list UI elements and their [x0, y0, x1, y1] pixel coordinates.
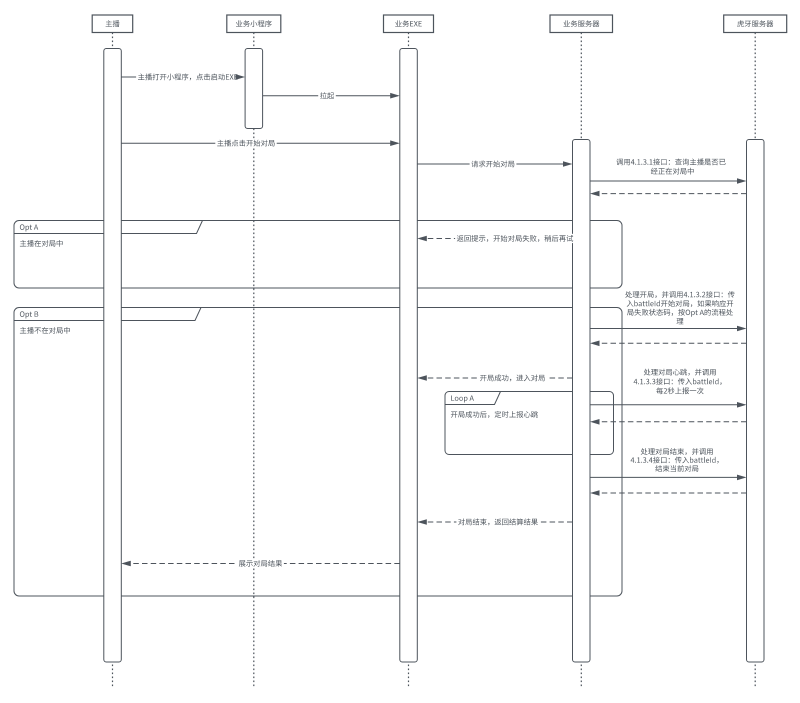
participant header 虎牙服务器 — [724, 15, 787, 33]
activation bar 虎牙服务器 — [747, 140, 765, 663]
fragment Opt A label — [20, 224, 38, 231]
message: 展示对局结果 — [123, 563, 400, 565]
fragment Loop A label — [451, 396, 474, 403]
participant header 业务服务器 — [550, 15, 613, 33]
fragment Opt A tab — [14, 221, 203, 234]
message: 调用4.1.3.3接口 — [590, 404, 745, 406]
participant header 业务小程序 — [227, 15, 281, 33]
message: 对局结束，返回结算结果 — [419, 521, 572, 523]
activation bar 业务小程序 — [245, 49, 263, 129]
message: 调用4.1.3.2接口 — [590, 328, 745, 330]
message: 开局成功，进入对局 — [419, 377, 572, 379]
activation bar 业务服务器 — [573, 140, 591, 663]
fragment Opt B box — [14, 308, 622, 597]
lifeline 主播 — [112, 33, 114, 689]
fragment Opt B guard — [20, 327, 70, 334]
lifeline 业务小程序 — [253, 33, 255, 689]
label: 处理对局结束 4.1.3.4 (3 lines) — [641, 448, 713, 455]
activation bar 主播 — [104, 49, 122, 663]
message: 拉起 — [263, 95, 398, 97]
message: 调用4.1.3.1接口 — [590, 180, 745, 182]
label: 调用4.1.3.1接口 (2 lines) — [616, 159, 725, 166]
participant header 主播 — [92, 15, 133, 33]
message: 返回提示，开始对局失败，稍后再试 — [419, 238, 572, 240]
message: 调用4.1.3.4接口 — [590, 476, 745, 478]
message: 主播点击开始对局 — [121, 142, 398, 144]
fragment Opt B label — [20, 311, 38, 318]
fragment Loop A tab — [445, 392, 501, 405]
fragment Opt A guard — [20, 240, 63, 247]
message: 4.1.3.2 返回 (dashed) — [592, 342, 747, 344]
message: 4.1.3.4 返回 (dashed) — [592, 492, 747, 494]
message: 请求开始对局 — [417, 163, 570, 165]
label: 处理对局心跳 4.1.3.3 (3 lines) — [644, 369, 716, 376]
lifeline 业务EXE — [408, 33, 410, 689]
fragment Loop A guard — [451, 411, 538, 418]
message: 4.1.3.3 返回 (dashed) — [592, 421, 747, 423]
message: 4.1.3.1 返回 (dashed) — [592, 193, 747, 195]
lifeline 业务服务器 — [580, 33, 582, 689]
activation bar 业务EXE — [400, 49, 418, 663]
fragment Opt B tab — [14, 308, 201, 321]
fragment Opt A box — [14, 221, 622, 289]
fragment Loop A box — [445, 392, 614, 455]
message: 主播打开小程序，点击启动EXE — [121, 76, 243, 78]
label: 处理开局 4.1.3.2 (4 lines) — [625, 291, 734, 298]
lifeline 虎牙服务器 — [754, 33, 756, 689]
participant header 业务EXE — [384, 15, 434, 33]
